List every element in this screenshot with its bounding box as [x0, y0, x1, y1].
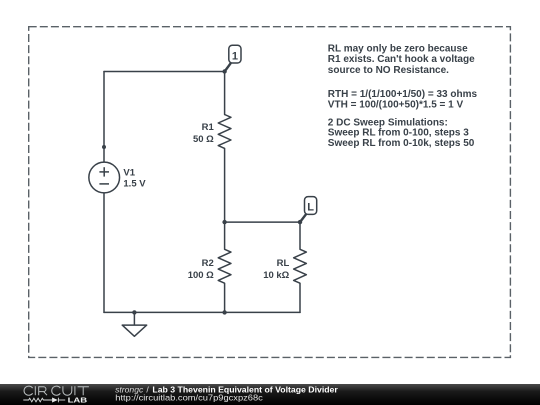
svg-text:1.5 V: 1.5 V — [123, 179, 146, 190]
logo resistor-diode squiggle — [23, 398, 65, 403]
junction dot bottom rail R2 — [222, 310, 226, 314]
voltage source V1 — [89, 162, 120, 193]
wire R2 bottom — [224, 283, 226, 312]
svg-text:10 kΩ: 10 kΩ — [263, 270, 289, 281]
svg-text:R1 exists. Can't hook a voltag: R1 exists. Can't hook a voltage — [328, 54, 475, 65]
wire RL bottom — [299, 283, 301, 312]
svg-text:http://circuitlab.com/cu7p9gcx: http://circuitlab.com/cu7p9gcxpz68c — [115, 393, 263, 403]
svg-text:100 Ω: 100 Ω — [188, 270, 214, 281]
junction dot mid rail — [222, 220, 226, 224]
resistor RL — [294, 249, 307, 283]
svg-text:1: 1 — [232, 50, 238, 62]
annotation note 1 — [328, 44, 475, 76]
svg-text:V1: V1 — [123, 168, 135, 179]
wire RL top — [299, 222, 301, 249]
wire mid rail — [225, 221, 300, 223]
annotation note 3 — [328, 118, 475, 149]
svg-text:R1: R1 — [202, 122, 215, 133]
svg-text:R2: R2 — [202, 258, 214, 269]
wire bottom rail — [104, 311, 300, 313]
resistor R2 — [218, 249, 231, 283]
junction dot node 1 — [222, 69, 226, 73]
wire top rail — [104, 71, 225, 73]
wire R2 top — [224, 222, 226, 249]
footer bar — [0, 384, 540, 405]
annotation note 2 — [328, 89, 478, 110]
svg-text:VTH = 100/(100+50)*1.5 = 1 V: VTH = 100/(100+50)*1.5 = 1 V — [328, 100, 464, 111]
svg-text:Sweep RL from 0-10k, steps 50: Sweep RL from 0-10k, steps 50 — [328, 138, 475, 149]
wire node1 to R1 — [224, 72, 226, 115]
node flag net L — [300, 197, 317, 223]
svg-text:L: L — [307, 202, 314, 214]
svg-text:50 Ω: 50 Ω — [193, 134, 214, 145]
resistor R1 — [218, 115, 231, 149]
schematic sheet border (dashed) — [29, 27, 511, 358]
svg-text:Sweep RL from 0-100, steps 3: Sweep RL from 0-100, steps 3 — [328, 128, 469, 139]
wire V1 top — [103, 72, 105, 163]
junction dot ground — [132, 310, 136, 314]
svg-text:LAB: LAB — [68, 396, 88, 405]
wire V1 bottom — [103, 193, 105, 313]
junction dot node L — [298, 220, 302, 224]
svg-text:source to NO Resistance.: source to NO Resistance. — [328, 65, 449, 76]
ground — [122, 312, 147, 336]
wire R1 to mid rail — [224, 148, 226, 222]
junction dot V1 top — [102, 145, 106, 149]
circuitlab logo wordmark CIRCUIT (drawn) — [24, 386, 89, 395]
node flag net 1 — [225, 45, 241, 71]
svg-text:RL: RL — [277, 258, 290, 269]
svg-text:RL may only be zero because: RL may only be zero because — [328, 44, 468, 55]
